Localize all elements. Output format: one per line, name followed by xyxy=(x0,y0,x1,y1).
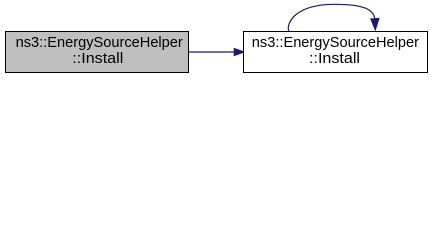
svg-text:::Install: ::Install xyxy=(72,51,123,67)
svg-text:ns3::EnergySourceHelper: ns3::EnergySourceHelper xyxy=(252,35,419,51)
wire: call edge from caller to callee xyxy=(189,48,244,55)
wire: recursive self-loop edge on callee xyxy=(288,4,379,31)
node: ns3::EnergySourceHelper::Install (callee, white box) xyxy=(244,32,428,73)
svg-text:ns3::EnergySourceHelper: ns3::EnergySourceHelper xyxy=(16,35,183,51)
svg-text:::Install: ::Install xyxy=(309,51,360,67)
node: ns3::EnergySourceHelper::Install (caller, grey box) xyxy=(6,32,189,73)
